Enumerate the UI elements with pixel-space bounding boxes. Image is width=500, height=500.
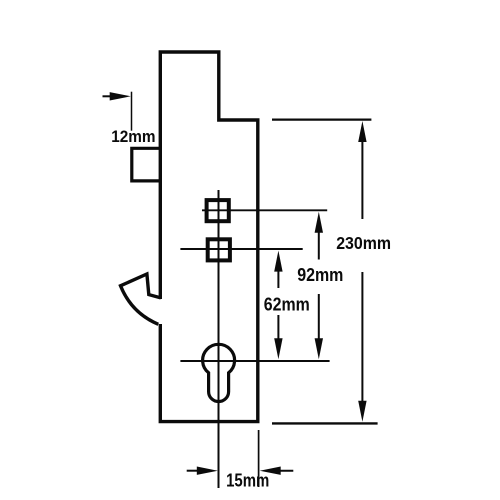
spindle square hole 1 — [207, 200, 229, 221]
top tick line (230mm upper reference) — [272, 118, 371, 120]
15mm left arrow pointing right — [187, 470, 200, 472]
62mm dimension line lower segment with down arrow — [277, 315, 279, 342]
euro cylinder keyhole — [203, 344, 235, 401]
svg-text:92mm: 92mm — [297, 264, 343, 285]
spindle square hole 2 — [208, 239, 230, 260]
62mm dimension line upper segment with up arrow — [277, 267, 279, 288]
230mm dimension line upper segment with up arrow — [361, 138, 363, 219]
svg-text:15mm: 15mm — [226, 470, 269, 491]
svg-text:230mm: 230mm — [336, 233, 391, 253]
92mm dimension line lower segment with down arrow — [318, 294, 320, 342]
vertical centerline through squares and keyhole — [218, 190, 220, 488]
faceplate tab rectangle (12mm reference) — [132, 148, 161, 181]
svg-text:12mm: 12mm — [111, 127, 155, 146]
15mm right arrow pointing left — [277, 470, 293, 472]
hook bolt — [121, 274, 161, 324]
bottom tick line (230mm lower reference) — [272, 422, 378, 424]
12mm dimension arrow — [103, 95, 114, 97]
92mm dimension line upper segment with up arrow — [318, 228, 320, 260]
horizontal line through square 1 center — [202, 209, 327, 211]
horizontal line through square 2 center — [180, 248, 302, 250]
horizontal line through keyhole center — [180, 360, 329, 362]
15mm right extension line — [258, 430, 260, 487]
12mm extension line — [131, 92, 133, 131]
svg-text:62mm: 62mm — [264, 293, 310, 314]
lock body outline — [160, 52, 257, 422]
230mm dimension line lower segment with down arrow — [361, 272, 363, 405]
